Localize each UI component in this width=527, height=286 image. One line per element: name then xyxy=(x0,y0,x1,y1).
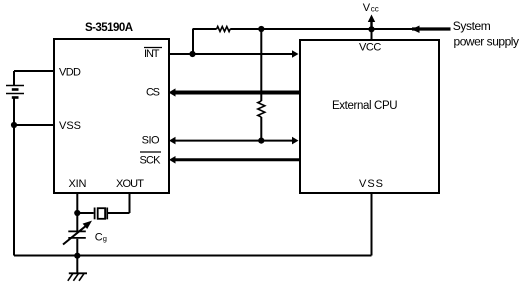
svg-text:C: C xyxy=(95,232,103,244)
svg-text:VSS: VSS xyxy=(359,178,383,190)
svg-text:VDD: VDD xyxy=(59,67,81,79)
svg-text:g: g xyxy=(103,234,107,243)
svg-text:CS: CS xyxy=(146,87,160,99)
svg-text:System: System xyxy=(453,19,491,33)
svg-text:VCC: VCC xyxy=(359,42,381,54)
svg-text:SIO: SIO xyxy=(142,134,160,146)
svg-text:VSS: VSS xyxy=(59,120,81,132)
svg-text:S-35190A: S-35190A xyxy=(85,22,133,34)
svg-text:power supply: power supply xyxy=(454,35,520,49)
svg-text:XOUT: XOUT xyxy=(116,178,144,190)
svg-text:V: V xyxy=(363,2,371,14)
svg-text:INT: INT xyxy=(144,48,160,60)
svg-text:SCK: SCK xyxy=(140,155,162,167)
svg-text:XIN: XIN xyxy=(69,178,87,190)
svg-text:cc: cc xyxy=(371,5,379,14)
svg-text:External CPU: External CPU xyxy=(332,100,398,112)
